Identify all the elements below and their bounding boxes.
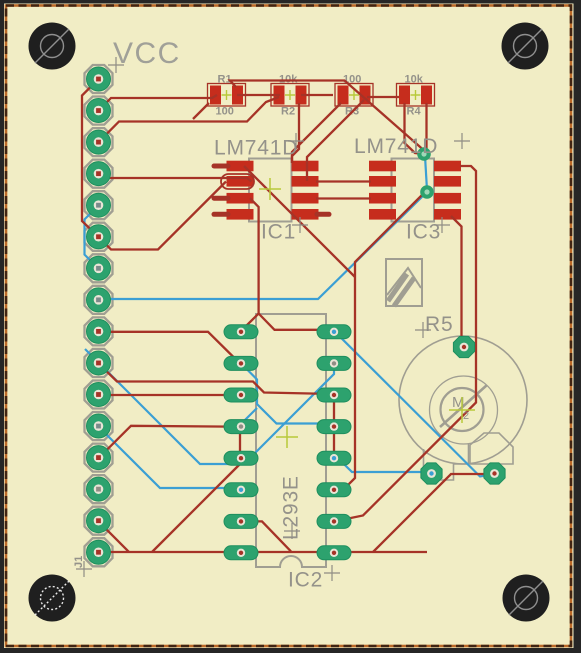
wire IC1 pin6 to IC3 pin3 [316,197,371,199]
mounting hole bottom-left [29,575,76,622]
wire bottom to M2 right pad [373,474,495,552]
wire IC2 pin7 to bottom net [240,521,291,551]
IC3 pad pin 3 left [369,193,396,204]
motor M2 pads [421,336,505,484]
IC1 pad pin 8 right [292,161,319,172]
IC1 pad pin 6 right [292,193,319,204]
svg-text:IC1: IC1 [261,221,296,244]
IC1 pad pin 1 left [227,161,254,172]
wire R1 left pad down [193,103,209,119]
header J1 silkscreen outline [85,65,113,566]
svg-text:R5: R5 [425,313,453,336]
IC2 pad pin 15 [317,356,351,370]
IC2 pad pin 4 [224,420,258,434]
header J1 pad pin 2 [87,99,111,123]
header J1 pad pin 1 [87,67,111,91]
IC3 pad pin 6 right [434,193,461,204]
wire bottom-layer J1 pin5 to pin7 [85,205,99,268]
wire IC2 right column link [333,395,335,458]
wire R1 bridge over R2 to via [230,81,427,154]
motor M2 silkscreen tab outline [424,433,514,480]
wire J1 pin6 to IC1 pin2 [99,182,227,250]
wire bottom-layer J1 pin12 to IC2 [99,427,236,488]
IC2 pad pin 5 [224,451,258,465]
resistor R2 [271,74,309,118]
wire IC3 pin5 to M2 top pad [451,216,462,345]
IC2 pad pin 7 [224,514,258,528]
wire loop around IC1 pin2 [221,174,254,189]
wire bottom-layer IC2 branch to pin3 [241,408,257,427]
IC2 pad pin 12 [317,451,351,465]
svg-text:10k: 10k [405,74,424,86]
component center crosses [259,178,475,448]
wire R2 down to IC1 pin8 [292,103,299,163]
wire J1 pin4 to IC1 [99,174,252,182]
wire IC1 pin1 diagonal to junction [244,166,355,277]
wire bottom-layer IC2 pin2 to pin13 [241,363,328,426]
wire IC1 pin3 to IC2 pins [242,198,259,330]
IC3 pad pin 2 left [369,176,396,187]
svg-text:LM741D: LM741D [214,137,298,160]
motor M2 pad bottom-left [421,463,442,484]
IC1 pad pin 5 right [292,209,319,220]
IC3 pad pin 1 left [369,161,396,172]
header J1 pad pin 9 [87,319,111,343]
wire J1 pin16 bottom horizontal [99,551,428,553]
svg-text:R2: R2 [281,106,295,118]
wire branch to IC2 pin5 [152,460,244,552]
wire R4 left to via [405,103,425,154]
svg-text:2: 2 [463,410,469,422]
wire R1 to R2 [237,94,280,96]
IC2 pad pin 13 [317,420,351,434]
IC2 body silkscreen with index notch [256,314,326,567]
IC2 pad pin 3 [224,388,258,402]
wire R2 to R3 [301,94,333,96]
IC2 pad pin 10 [317,514,351,528]
IC3 pad pin 7 right [434,176,461,187]
wire bottom-layer IC2 to M2 right pad [335,332,495,477]
IC1 pad pin 3 left [227,193,254,204]
resistor R1 [208,74,246,118]
wire junction to IC2 pin16 [259,314,332,330]
IC2 pad pin 2 [224,356,258,370]
IC2 pad pin 14 [317,388,351,402]
origin crosses [76,57,470,581]
wire R4 right to via [425,103,427,151]
header J1 pad pin 3 [87,130,111,154]
IC3 pad pin 8 right [434,161,461,172]
wire stubs at IC1 pads [214,166,329,214]
wire bottom-layer diag to IC2 pin11 [85,349,334,464]
IC2 pad pin 16 [317,325,351,339]
op-amp IC3 body silkscreen [392,159,435,222]
IC2 pad pin 6 [224,483,258,497]
wire J1 pin9 to IC2 pin1 [99,332,241,364]
header J1 pad pin 6 [87,225,111,249]
svg-text:100: 100 [343,74,361,86]
IC1 pad pin 2 left [227,176,254,187]
op-amp IC1 SMD pads [227,161,319,220]
motor M2 pad bottom-right [484,463,505,484]
IC3 pad pin 4 left [369,209,396,220]
mounting hole top-left [29,23,76,70]
resistor R4 [397,74,435,118]
svg-text:IC3: IC3 [406,221,441,244]
op-amp IC1 body silkscreen [249,159,292,222]
header J1 pad pin 11 [87,383,111,407]
IC2 through-hole pads [224,325,351,560]
IC2 pad pin 9 [317,546,351,560]
svg-text:J1: J1 [73,556,85,568]
op-amp IC3 SMD pads [369,161,461,220]
header J1 pad pin 7 [87,256,111,280]
wire R3 to R4 [367,96,399,98]
header J1 pad pin 16 [87,540,111,564]
svg-text:L293E: L293E [280,475,303,540]
header J1 pad pin 15 [87,509,111,533]
wire J1 left bypass [82,79,99,237]
IC3 pad pin 5 right [434,209,461,220]
wire IC2 left column link [239,427,241,459]
motor M2 pad top [453,336,474,357]
svg-text:LM741D: LM741D [354,135,438,158]
wire R3 to IC1 pin8 [292,103,341,163]
wire J1 pin15 to bottom net [99,521,130,552]
via near IC3 top [417,147,431,161]
IC2 pad pin 11 [317,483,351,497]
wire bottom-layer J1 pin8 to via [99,192,428,299]
wire R3 right to IC1 pin7 [307,100,364,181]
motor M2 silkscreen circles [399,336,527,464]
header J1 pad pin 5 [87,193,111,217]
wire bottom-layer IC2 pin14 to M2 left pad [338,458,429,472]
svg-text:IC2: IC2 [288,569,323,592]
header J1 pad pin 13 [87,446,111,470]
svg-text:R4: R4 [407,106,422,118]
header J1 pad pin 8 [87,288,111,312]
header J1 pad pin 10 [87,351,111,375]
trimmer R5 silkscreen symbol [386,259,422,306]
resistor R3 [335,74,373,118]
IC1 pad pin 7 right [292,176,319,187]
IC1 pad pin 4 left [227,209,254,220]
header J1 pad pin 14 [87,477,111,501]
wire J1 pin2 to R1 [99,95,218,111]
wire IC3 pin8 to IC2 long [341,166,476,520]
via at IC3 center [420,185,434,199]
IC2 pad pin 1 [224,325,258,339]
IC2 pad pin 8 [224,546,258,560]
mounting hole top-right [502,23,549,70]
wire bottom-layer via to via [425,156,427,190]
wire J1 pin13 to IC2 pin4 [99,426,231,458]
mounting hole bottom-right [503,575,550,622]
wire J1 pin10 to IC2 right [99,363,335,394]
wire via to IC2 vertical [336,193,424,489]
header J1 pads [87,67,111,564]
wire J1 pin11 to IC2 pin3 [99,394,229,396]
header J1 pad pin 12 [87,414,111,438]
wire IC1 pin7 to IC3 pin2 [316,180,371,182]
wire J1 pin3 to R2 [99,97,280,142]
svg-text:100: 100 [216,106,234,118]
header J1 pad pin 4 [87,162,111,186]
